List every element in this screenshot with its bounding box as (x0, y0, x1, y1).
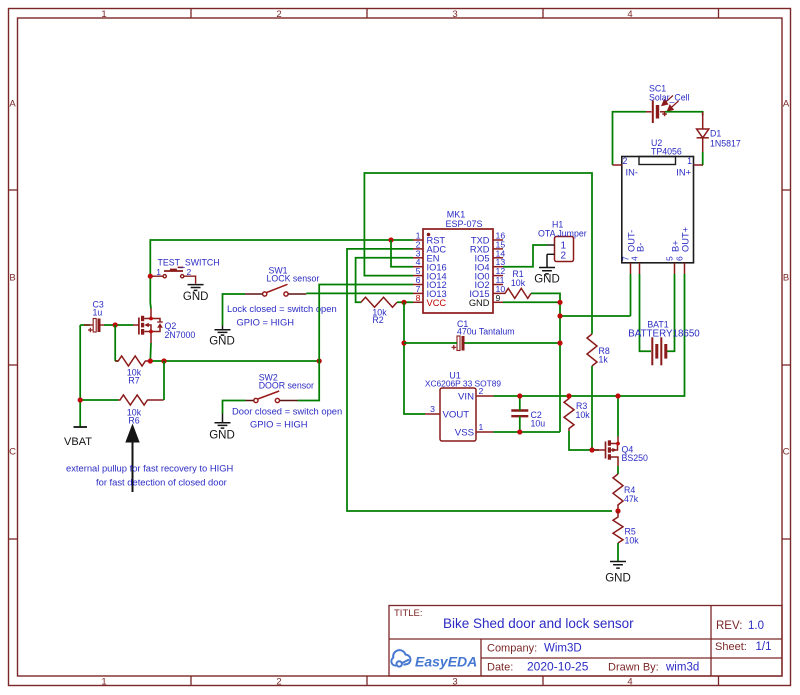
resistor R5 (613, 511, 623, 543)
junction VCC/C1 (401, 340, 406, 345)
wire VBAT vertical rail (80, 325, 118, 427)
resistor R8 (587, 334, 597, 366)
resistor R7 (115, 356, 150, 366)
U2 bottom pin names (627, 227, 691, 252)
wire B- to battery (640, 274, 652, 351)
junction C3/gate (113, 322, 118, 327)
ground under TEST_SWITCH (188, 285, 204, 291)
frame row labels right (783, 99, 790, 458)
MK1 right pin stubs (493, 240, 503, 302)
resistor R2 (361, 297, 397, 307)
svg-text:R7: R7 (128, 376, 139, 386)
svg-text:VBAT: VBAT (64, 436, 92, 448)
svg-text:2020-10-25: 2020-10-25 (527, 660, 589, 674)
ground SW2 (215, 414, 231, 429)
junction VIN/Q4 (615, 393, 620, 398)
svg-text:10k: 10k (511, 278, 526, 288)
svg-text:4: 4 (627, 9, 632, 20)
wire Q4 drain to R4 (617, 466, 619, 474)
wire SW1 to IO13 (306, 292, 413, 294)
svg-text:A: A (783, 99, 790, 110)
frame column labels top (101, 9, 632, 20)
svg-text:IN-: IN- (626, 168, 638, 178)
wire R6 riser to rail (163, 361, 165, 400)
svg-text:2: 2 (187, 267, 192, 277)
wire rail riser to IO12 (319, 285, 413, 362)
title block box (389, 606, 782, 677)
svg-text:2: 2 (276, 9, 281, 20)
U2 pin IN- (613, 164, 622, 166)
svg-text:B: B (9, 273, 15, 284)
svg-text:C: C (9, 447, 16, 458)
svg-text:GND: GND (209, 430, 235, 442)
wire R1 to gnd node (531, 293, 560, 302)
svg-text:GPIO = HIGH: GPIO = HIGH (237, 317, 295, 328)
frame column labels bottom (101, 677, 632, 688)
wire Q4 source to VIN rail (617, 396, 619, 437)
U2 pin IN+ (694, 164, 703, 166)
diode D1 (697, 112, 709, 152)
svg-text:GND: GND (209, 336, 235, 348)
junction R2/VCC (401, 300, 406, 305)
svg-text:GND: GND (605, 573, 631, 585)
annotation arrow (125, 424, 139, 443)
svg-text:Lock closed = switch open: Lock closed = switch open (227, 303, 337, 314)
svg-text:3: 3 (452, 9, 457, 20)
junction C2 bottom (517, 429, 522, 434)
junction C2 top (517, 393, 522, 398)
svg-text:5: 5 (665, 256, 675, 261)
wire C3 to Q2 gate (104, 324, 133, 326)
ground under R5 (610, 562, 626, 569)
svg-text:6: 6 (675, 256, 685, 261)
transistor Q2 (133, 309, 163, 344)
svg-text:Drawn By:: Drawn By: (608, 662, 659, 674)
wire GND pin to rail (503, 302, 631, 432)
svg-text:TITLE:: TITLE: (394, 608, 423, 619)
solar cell arrows (662, 96, 679, 111)
svg-text:10k: 10k (625, 536, 640, 546)
junction VBAT/R6 (78, 397, 83, 402)
junction gnd/R1 (557, 300, 562, 305)
pushbutton TEST_SWITCH (153, 267, 196, 283)
svg-text:1: 1 (479, 422, 484, 432)
svg-text:MK1: MK1 (447, 210, 466, 220)
svg-text:DOOR sensor: DOOR sensor (259, 381, 314, 391)
svg-text:GPIO = HIGH: GPIO = HIGH (250, 419, 308, 430)
wire SW2 left to ground (223, 401, 246, 414)
junction R3 top (566, 393, 571, 398)
resistor R4 (613, 474, 623, 511)
resistor R1 (503, 288, 531, 298)
junction RST rail / test switch (148, 274, 153, 279)
IC MK1 ESP-07S body (423, 229, 493, 313)
wire solar to IN- (613, 112, 647, 165)
wire VIN rail (494, 274, 685, 396)
U2 bottom pin numbers (621, 256, 685, 261)
MK1 right pin names (469, 236, 489, 299)
svg-text:REV:: REV: (716, 620, 742, 632)
wire B+ to battery (667, 274, 675, 351)
module U2 TP4056 body (622, 157, 694, 263)
junction gnd/OUT- (557, 313, 562, 318)
svg-text:1: 1 (156, 267, 161, 277)
svg-text:VIN: VIN (458, 392, 474, 403)
svg-text:1: 1 (687, 156, 692, 166)
battery BAT1 (652, 337, 666, 365)
svg-text:GND: GND (534, 274, 560, 286)
svg-text:D1: D1 (710, 129, 721, 139)
VBAT power symbol (74, 426, 88, 428)
svg-text:Solar_Cell: Solar_Cell (649, 93, 690, 103)
svg-text:Company:: Company: (487, 643, 537, 655)
svg-text:2: 2 (276, 677, 281, 688)
svg-text:Door closed = switch open: Door closed = switch open (232, 406, 342, 417)
wire C1 left (404, 342, 457, 344)
wire SW1 left to ground (223, 294, 246, 326)
wire Q2 drain up to RST rail (150, 240, 413, 309)
wire IO14 top rail to R8 (364, 173, 592, 334)
junction gate node (589, 447, 594, 452)
MK1 left pin numbers 1-8 (416, 231, 421, 294)
svg-text:1N5817: 1N5817 (710, 139, 741, 149)
header H1 OTA Jumper (555, 237, 574, 262)
svg-text:TEST_SWITCH: TEST_SWITCH (158, 258, 220, 268)
svg-text:B+: B+ (671, 240, 681, 252)
svg-text:XC6206P 33 SOT89: XC6206P 33 SOT89 (425, 379, 502, 389)
svg-text:4: 4 (627, 677, 632, 688)
wire gate node to R7 (115, 325, 118, 361)
wire D1 to IN+ (702, 152, 704, 165)
wire RST to IO16 branch (391, 240, 413, 267)
junction Q4 source (616, 442, 620, 446)
U2 bottom pin stubs (631, 263, 685, 274)
svg-text:LOCK sensor: LOCK sensor (267, 274, 320, 284)
svg-text:OTA Jumper: OTA Jumper (538, 229, 587, 239)
svg-text:3: 3 (430, 404, 435, 414)
MK1 left pin names (427, 236, 447, 299)
svg-text:wim3d: wim3d (665, 662, 699, 674)
junction rail/R6 riser (161, 358, 166, 363)
svg-text:2: 2 (623, 156, 628, 166)
svg-text:OUT+: OUT+ (681, 227, 691, 252)
junction R4/R5/ADC (615, 508, 620, 513)
svg-text:GND: GND (469, 298, 490, 308)
svg-text:Wim3D: Wim3D (544, 643, 582, 655)
svg-text:1k: 1k (599, 355, 609, 365)
H1 pin stubs (547, 245, 555, 254)
svg-text:GND: GND (183, 291, 209, 303)
wire EN to R2 (356, 258, 413, 303)
svg-text:EasyEDA: EasyEDA (415, 654, 477, 670)
wire IO4 to H1 (503, 245, 547, 267)
junction Q2 drain (149, 317, 153, 321)
svg-text:C: C (783, 447, 790, 458)
svg-text:8: 8 (416, 293, 421, 303)
svg-text:9: 9 (496, 293, 501, 303)
svg-text:10k: 10k (576, 410, 591, 420)
wire ADC sense (347, 249, 612, 511)
ground H1 (539, 254, 555, 274)
resistor R6 (118, 395, 164, 405)
svg-text:Bike Shed door and lock sensor: Bike Shed door and lock sensor (443, 616, 634, 631)
wire C1 right to gnd riser (465, 342, 561, 344)
junction Q2 source (149, 330, 153, 334)
svg-text:2N7000: 2N7000 (165, 330, 196, 340)
capacitor C3 (84, 319, 104, 333)
svg-text:ESP-07S: ESP-07S (445, 219, 482, 229)
svg-text:VCC: VCC (427, 298, 447, 308)
svg-text:TP4056: TP4056 (651, 147, 682, 157)
svg-text:1u: 1u (93, 308, 103, 318)
capacitor C2 (511, 411, 528, 417)
wire VCC riser to C1 and VOUT (404, 302, 425, 414)
wire SW2 to rail riser (298, 361, 320, 401)
svg-text:BATTERY18650: BATTERY18650 (628, 329, 700, 340)
regulator U1 XC6206 (440, 388, 476, 441)
svg-text:R6: R6 (128, 416, 139, 426)
resistor R3 (564, 396, 574, 431)
svg-text:2: 2 (561, 251, 567, 262)
svg-text:A: A (9, 99, 16, 110)
wire R3 bottom to gate node (569, 431, 599, 450)
svg-text:Sheet:: Sheet: (715, 641, 747, 653)
svg-text:external pullup for fast recov: external pullup for fast recovery to HIG… (66, 463, 233, 474)
svg-text:1/1: 1/1 (756, 641, 772, 653)
svg-text:BS250: BS250 (622, 453, 649, 463)
MK1 right pin numbers 16-9 (496, 231, 506, 294)
svg-text:VOUT: VOUT (443, 410, 470, 421)
svg-text:1.0: 1.0 (748, 620, 764, 632)
U1 pin stubs (425, 396, 494, 432)
wire C2 risers (519, 396, 521, 432)
svg-text:4: 4 (630, 256, 640, 261)
EasyEDA logo (391, 650, 410, 666)
svg-text:Date:: Date: (487, 662, 513, 674)
switch SW1 LOCK sensor (245, 284, 306, 296)
capacitor C1 (452, 336, 465, 351)
svg-text:1: 1 (101, 9, 106, 20)
svg-text:470u Tantalum: 470u Tantalum (457, 327, 515, 337)
ground SW1 (215, 326, 231, 336)
svg-text:3: 3 (452, 677, 457, 688)
solar cell SC1 (646, 101, 667, 124)
svg-text:VSS: VSS (455, 428, 474, 439)
frame row labels left (9, 99, 16, 458)
svg-text:for fast detection of closed d: for fast detection of closed door (96, 477, 227, 488)
wire solar to D1 (665, 112, 703, 116)
junction rail/Q2 source (148, 358, 153, 363)
wire source rail y361 (150, 343, 319, 361)
junction gnd/C1 (557, 340, 562, 345)
MK1 left pin stubs (413, 240, 423, 302)
svg-text:B-: B- (636, 243, 646, 252)
svg-text:10u: 10u (531, 419, 546, 429)
switch SW2 DOOR sensor (246, 391, 298, 403)
svg-text:B: B (783, 273, 789, 284)
svg-text:IN+: IN+ (676, 168, 691, 178)
svg-text:1: 1 (101, 677, 106, 688)
wire R8 bottom to gate node (591, 366, 593, 450)
junction RST / IO16 branch (388, 237, 393, 242)
wire OUT- to gnd rail (630, 274, 632, 316)
transistor Q4 (594, 437, 618, 467)
svg-text:47k: 47k (624, 494, 639, 504)
svg-text:R2: R2 (372, 315, 383, 325)
wire VSS row (494, 431, 561, 433)
wire R5 to ground (617, 543, 619, 561)
junction rail/SW2-IO12 riser (317, 358, 322, 363)
svg-text:2: 2 (479, 386, 484, 396)
